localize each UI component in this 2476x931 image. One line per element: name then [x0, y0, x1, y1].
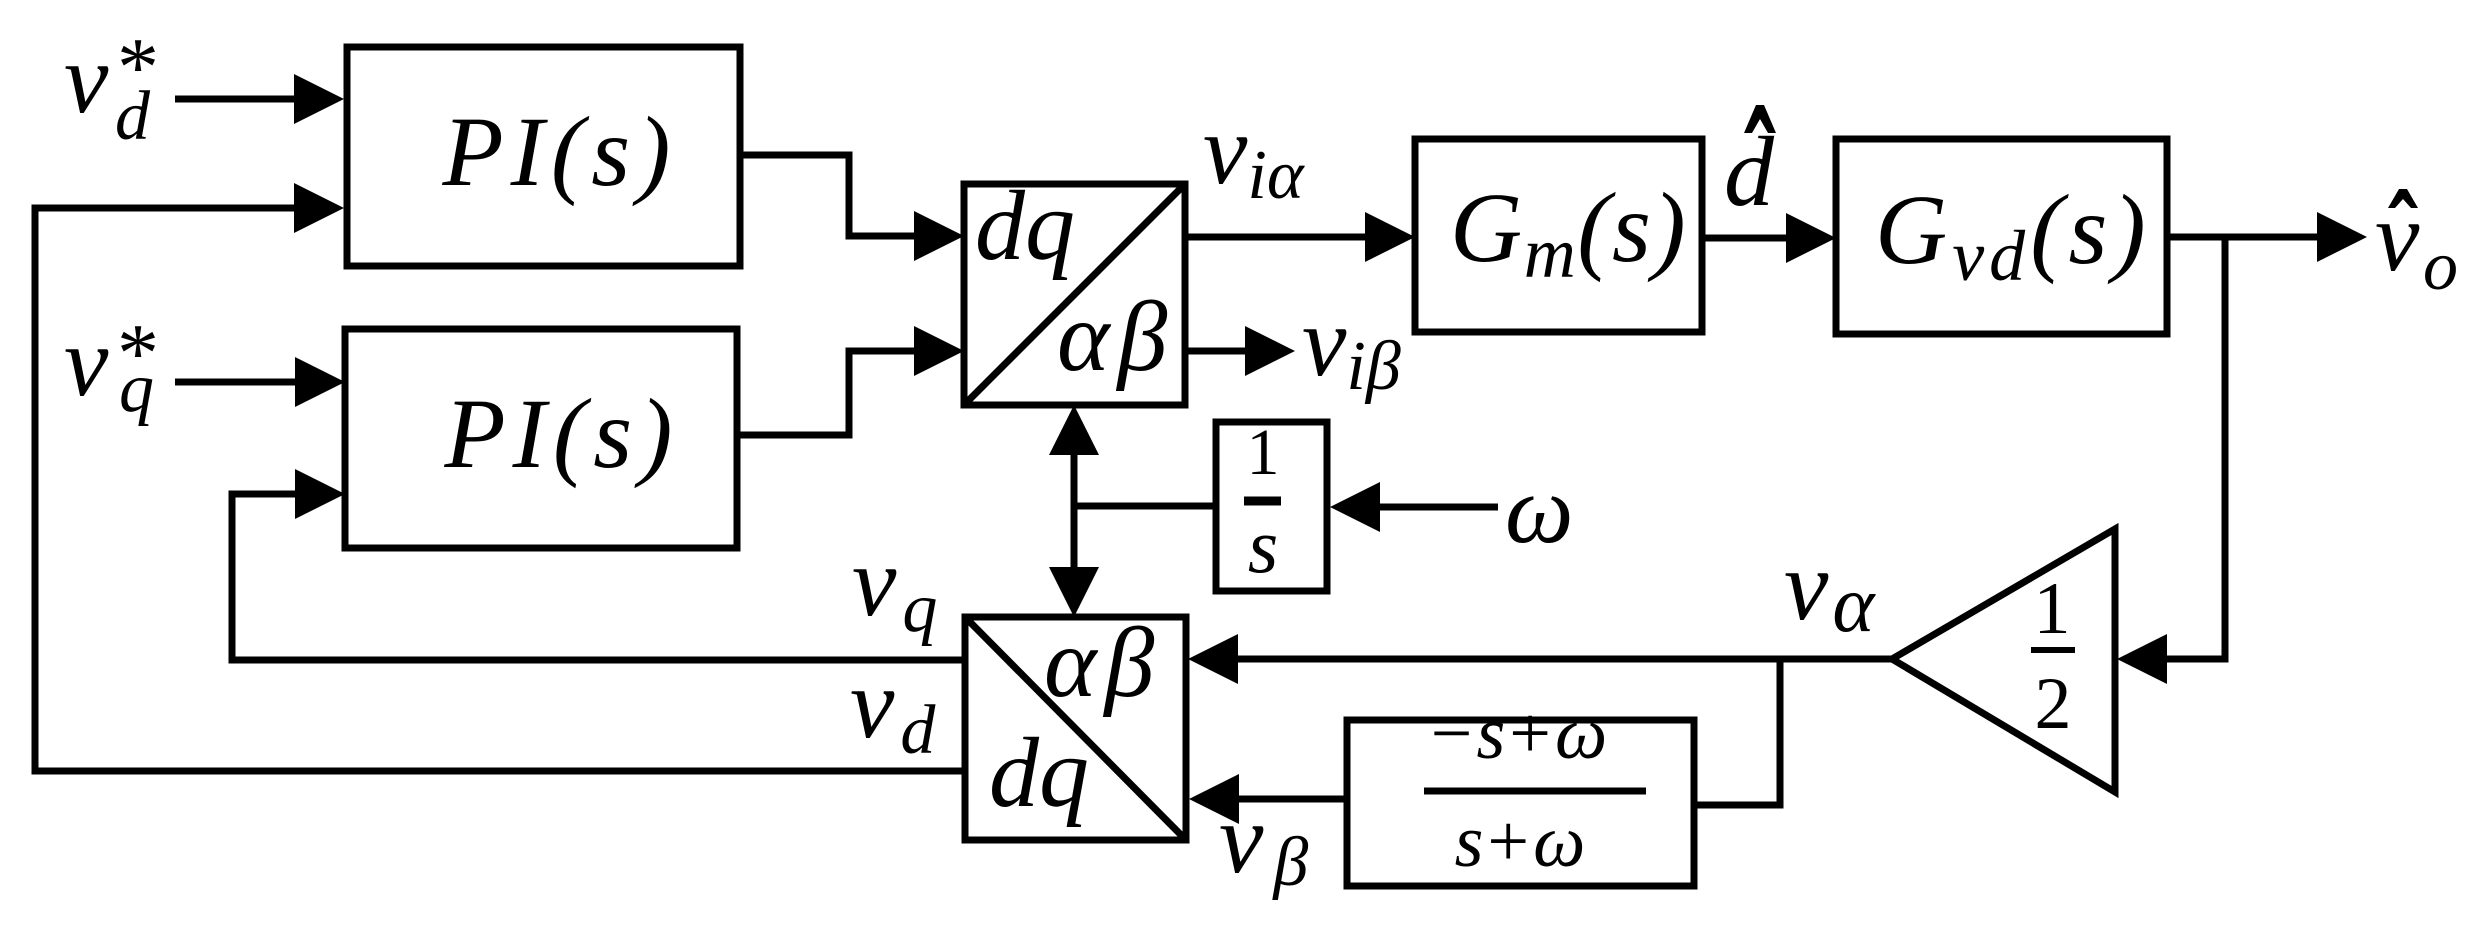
- svg-text:*: *: [117, 307, 159, 400]
- svg-text:s: s: [1248, 502, 1278, 589]
- svg-text:v: v: [64, 23, 109, 134]
- arrowhead into PI2 top: [295, 357, 345, 407]
- wire vd-star input: [175, 96, 298, 103]
- label vo-hat: [2375, 181, 2458, 305]
- arrowhead into PI2 bottom: [295, 469, 345, 519]
- block Gm: [1415, 139, 1702, 332]
- svg-text:ω: ω: [1505, 456, 1574, 563]
- wire v-alpha: [1234, 656, 1892, 663]
- svg-text:s+ω: s+ω: [1455, 801, 1590, 883]
- wire PI1 output: [740, 155, 918, 236]
- wire v-beta: [1235, 796, 1347, 803]
- arrowhead into PI1 top: [294, 74, 344, 124]
- svg-text:PI(s): PI(s): [444, 378, 680, 489]
- wire vd feedback: [35, 208, 965, 771]
- block 1/s integrator: [1216, 422, 1327, 591]
- arrowhead v-alpha into ab-dq box: [1188, 634, 1238, 684]
- arrowhead into dq box lower: [914, 326, 964, 376]
- block alphabeta-to-dq: [965, 617, 1186, 840]
- arrowhead vo-hat: [2317, 212, 2367, 262]
- label vq-star: [64, 306, 159, 427]
- wire vo-hat output: [2167, 234, 2321, 241]
- arrowhead into gain triangle: [2117, 634, 2167, 684]
- arrowhead theta down into ab-dq box: [1049, 567, 1099, 617]
- svg-text:v: v: [64, 306, 109, 417]
- wire d-hat: [1702, 235, 1790, 242]
- svg-text:αβ: αβ: [1044, 607, 1162, 718]
- label d-hat: [1724, 105, 1776, 227]
- arrowhead v-i-beta: [1245, 326, 1295, 376]
- block gain-half triangle: [1892, 529, 2115, 792]
- arrowhead omega into 1/s: [1330, 482, 1380, 532]
- label one-half in triangle: [2031, 568, 2075, 745]
- wire feedback down to gain: [2163, 237, 2225, 659]
- svg-text:αβ: αβ: [1057, 281, 1175, 392]
- block allpass filter: [1347, 720, 1694, 886]
- svg-text:PI(s): PI(s): [442, 96, 678, 207]
- arrowhead theta up into dq box: [1049, 405, 1099, 455]
- svg-text:dq: dq: [975, 170, 1075, 281]
- label vd-star: [64, 21, 159, 155]
- svg-text:2: 2: [2035, 663, 2072, 745]
- wire PI2 output: [737, 351, 918, 435]
- wire omega input: [1378, 504, 1498, 511]
- wire v-i-beta: [1185, 348, 1249, 355]
- svg-text:o: o: [2423, 228, 2458, 305]
- svg-text:1: 1: [1247, 416, 1280, 489]
- block PI1: [347, 47, 740, 266]
- label 1/s fraction: [1244, 416, 1281, 589]
- svg-text:−s+ω: −s+ω: [1431, 693, 1612, 775]
- wire v-i-alpha: [1185, 234, 1369, 241]
- wire theta vertical: [1071, 451, 1078, 571]
- arrowhead into Gm: [1365, 212, 1415, 262]
- arrowhead into dq box upper: [914, 211, 964, 261]
- svg-text:*: *: [117, 21, 159, 114]
- block dq-to-alphabeta: [964, 184, 1185, 405]
- block Gvd: [1836, 139, 2167, 334]
- wire branch to filter: [1694, 659, 1780, 805]
- wire 1/s to transforms: [1074, 503, 1216, 510]
- block PI2: [345, 329, 737, 548]
- arrowhead v-beta into ab-dq box: [1189, 774, 1239, 824]
- svg-text:dq: dq: [989, 717, 1089, 828]
- arrowhead into PI1 bottom: [294, 183, 344, 233]
- svg-text:1: 1: [2034, 568, 2071, 650]
- label allpass fraction: [1424, 693, 1646, 883]
- wire vq feedback: [232, 494, 965, 660]
- wire vq-star input: [175, 379, 299, 386]
- arrowhead into Gvd: [1786, 213, 1836, 263]
